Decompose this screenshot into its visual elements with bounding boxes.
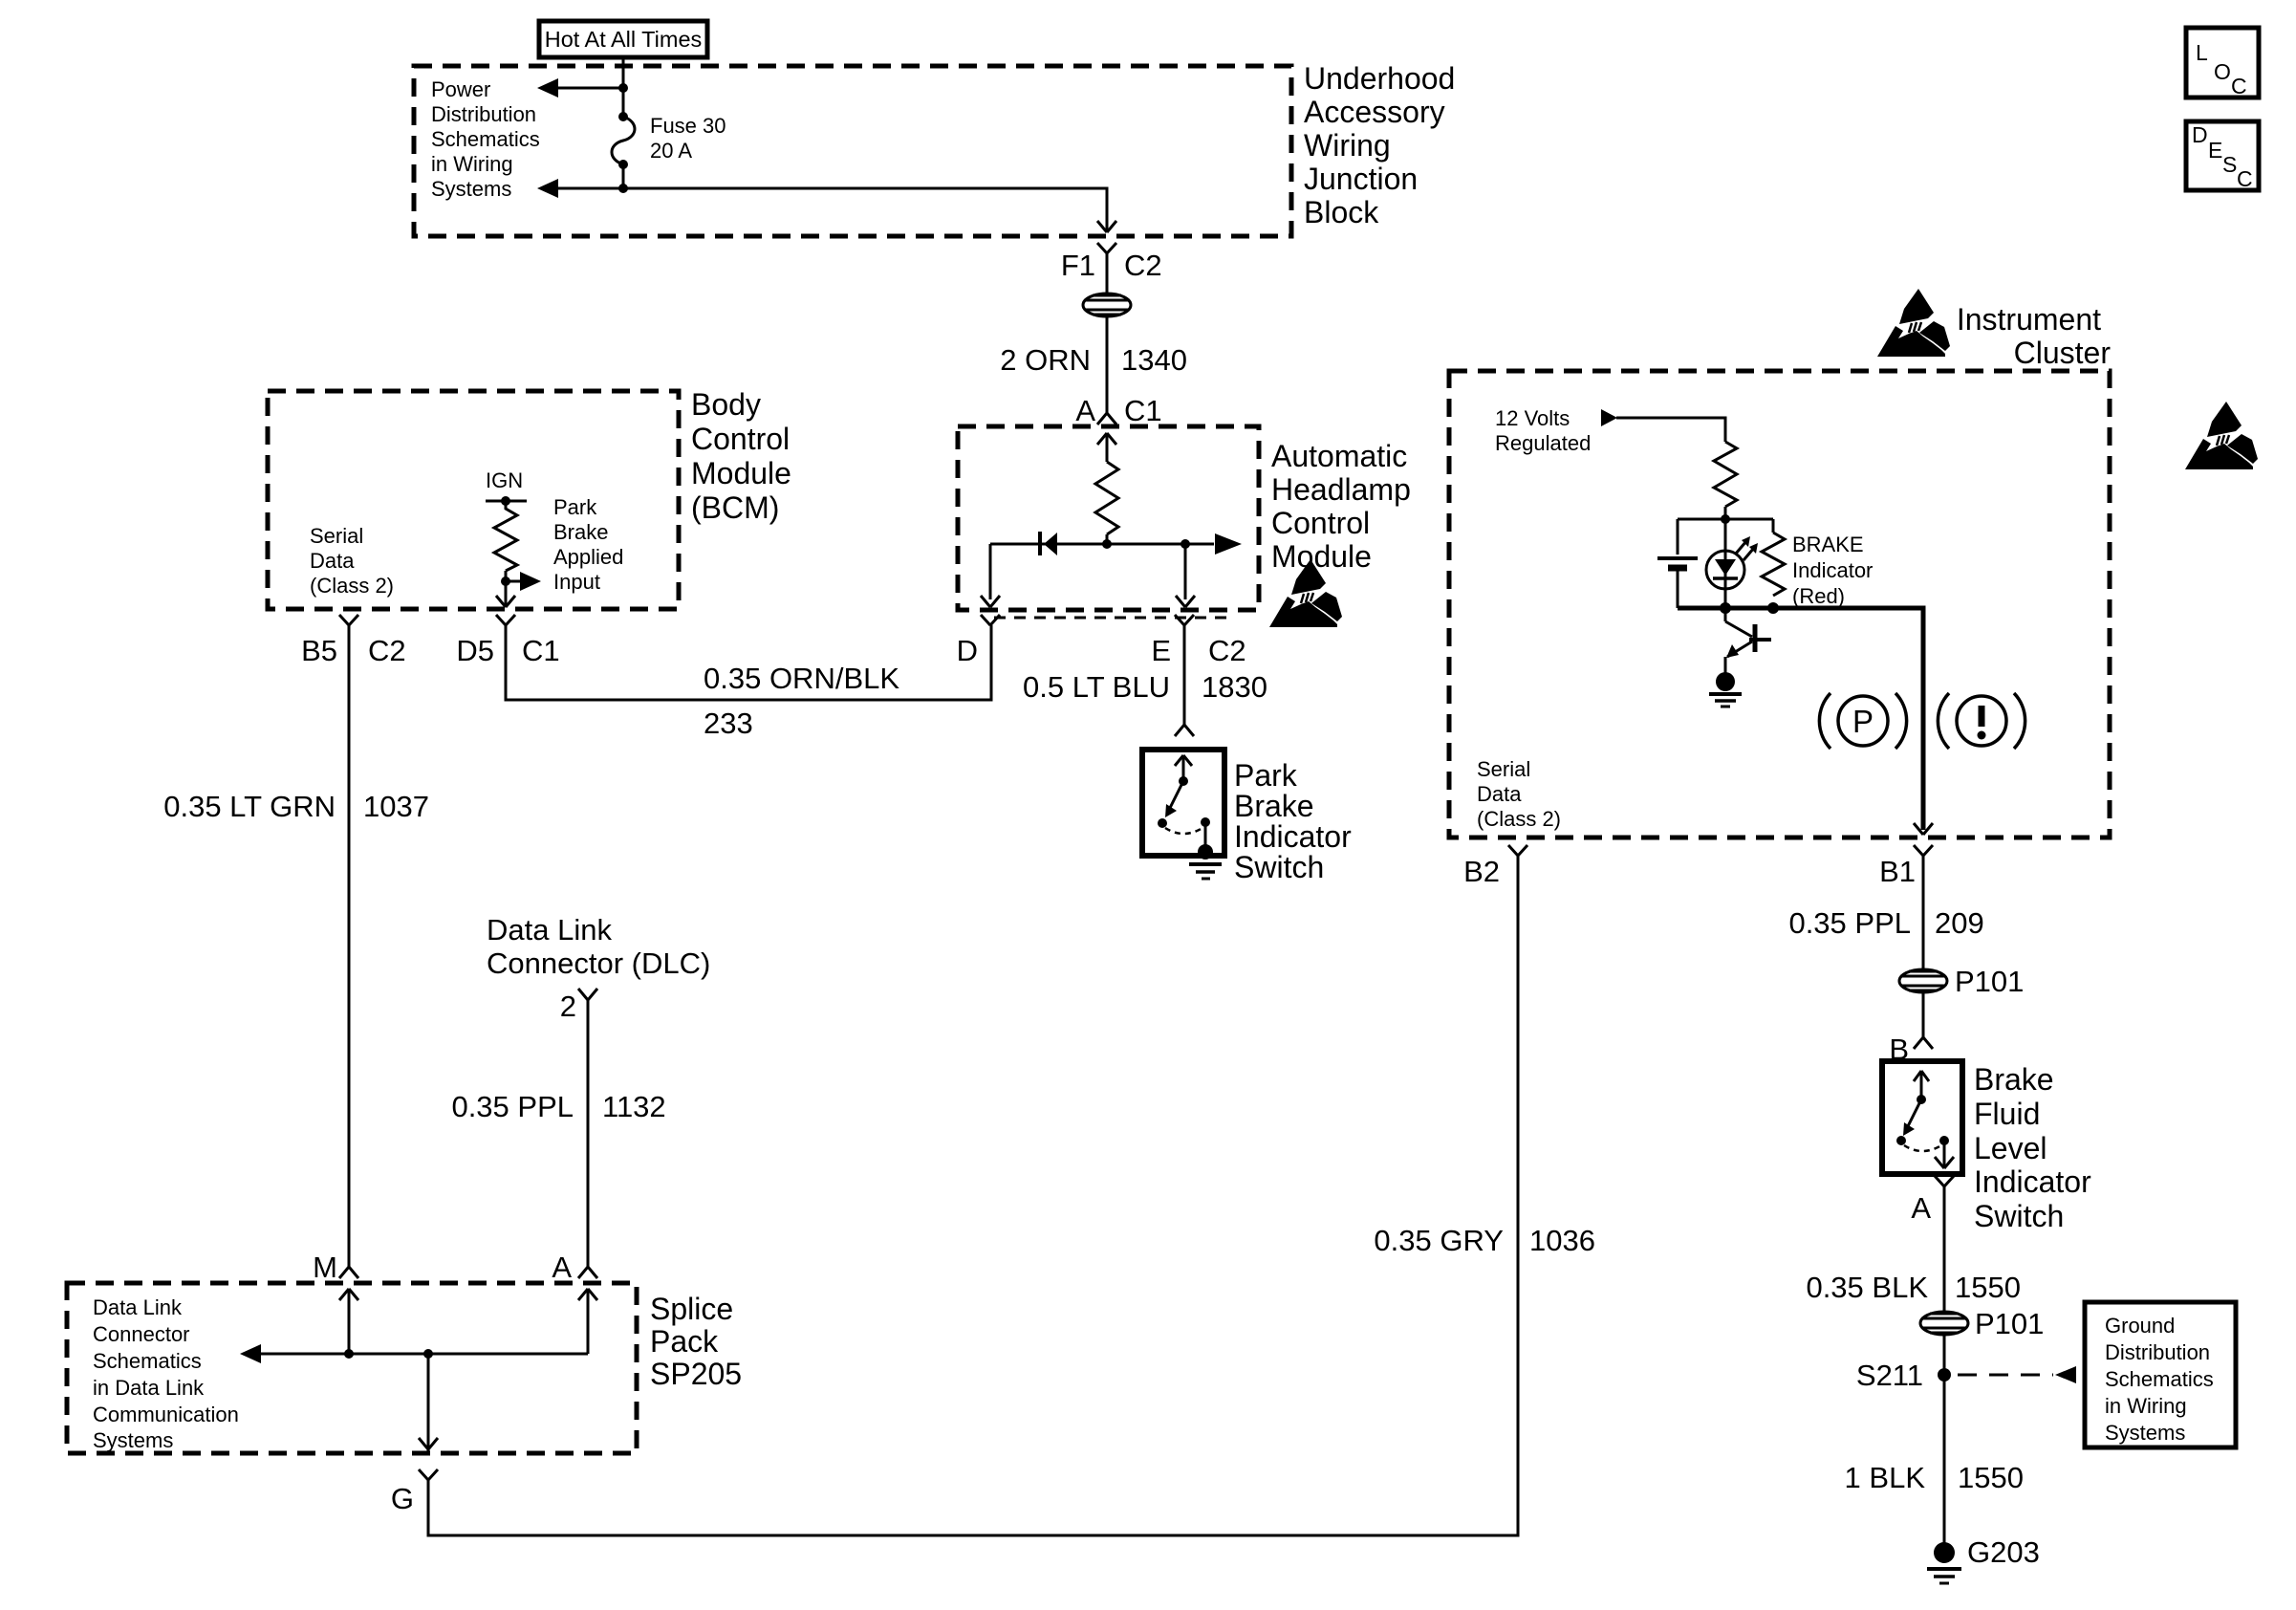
label: 2 ORN 1340 xyxy=(1000,343,1187,377)
svg-text:Instrument: Instrument xyxy=(1957,302,2101,337)
svg-text:BRAKE: BRAKE xyxy=(1792,533,1864,556)
brake fluid switch internals xyxy=(1896,1071,1954,1168)
wire E to park brake switch (0.5 LT BLU 1830) xyxy=(1183,625,1186,725)
svg-text:C1: C1 xyxy=(522,634,560,667)
wire P101 to G203 xyxy=(1943,1335,1946,1545)
svg-text:Systems: Systems xyxy=(93,1428,173,1452)
svg-text:Wiring: Wiring xyxy=(1304,128,1391,163)
svg-text:1 BLK: 1 BLK xyxy=(1845,1461,1926,1494)
wire G to B2 xyxy=(428,856,1518,1535)
svg-text:F1: F1 xyxy=(1061,249,1095,282)
svg-text:B5: B5 xyxy=(301,634,337,667)
node LED top xyxy=(1721,514,1730,524)
resistor in BCM xyxy=(494,501,517,571)
Ground Distribution Schematics in Wiring Systems box xyxy=(2085,1302,2236,1447)
connector B1 xyxy=(1879,845,1933,969)
label: 0.35 ORN/BLK 233 xyxy=(704,662,899,740)
svg-text:Park: Park xyxy=(553,495,597,519)
park brake telltale (P) xyxy=(1819,693,1906,749)
svg-text:0.35 LT GRN: 0.35 LT GRN xyxy=(163,790,336,823)
svg-text:Applied: Applied xyxy=(553,545,623,569)
svg-text:(Class 2): (Class 2) xyxy=(310,574,394,598)
wire DLC to A (0.35 PPL 1132) xyxy=(587,1000,590,1267)
svg-text:209: 209 xyxy=(1935,906,1984,940)
svg-text:D: D xyxy=(957,634,978,667)
Body Control Module dashed box xyxy=(268,391,679,609)
label: 0.35 GRY 1036 xyxy=(1374,1224,1595,1257)
park brake switch internals xyxy=(1158,755,1213,859)
wire resistor to bus xyxy=(1106,534,1109,544)
splice bus wire with arrow xyxy=(240,1344,588,1363)
svg-text:Connector (DLC): Connector (DLC) xyxy=(487,946,710,980)
transistor Q1 xyxy=(1725,608,1771,673)
svg-text:Indicator: Indicator xyxy=(1234,819,1352,854)
svg-text:A: A xyxy=(1075,394,1095,427)
svg-text:C: C xyxy=(2231,74,2247,98)
wire 2 ORN 1340 xyxy=(1106,316,1109,413)
svg-text:Headlamp: Headlamp xyxy=(1271,472,1411,507)
wire A to P101 (0.35 BLK 1550) xyxy=(1943,1186,1946,1312)
svg-text:Indicator: Indicator xyxy=(1792,558,1873,582)
connector DLC pin 2 xyxy=(560,989,597,1023)
node resistor bottom xyxy=(1767,602,1779,614)
svg-text:SP205: SP205 xyxy=(650,1357,742,1391)
arrow into AHCM at A xyxy=(1097,433,1116,462)
ground G203 xyxy=(1927,1535,2040,1583)
wire to F1 pin xyxy=(623,188,1116,232)
DESC reference box xyxy=(2186,121,2259,191)
wire arrow to power distribution (top) xyxy=(537,78,623,98)
svg-text:Communication: Communication xyxy=(93,1403,239,1426)
label: 0.35 PPL 209 xyxy=(1788,906,1983,940)
svg-text:Systems: Systems xyxy=(431,177,511,201)
svg-text:Distribution: Distribution xyxy=(431,102,536,126)
svg-text:1132: 1132 xyxy=(602,1090,666,1123)
svg-text:Data: Data xyxy=(310,549,355,573)
connector D5 / C1 xyxy=(456,615,559,667)
svg-text:Brake: Brake xyxy=(1974,1062,2054,1097)
connector G xyxy=(391,1469,438,1515)
svg-text:Brake: Brake xyxy=(553,520,608,544)
svg-text:Splice: Splice xyxy=(650,1292,733,1326)
connector face dashed line D-E xyxy=(994,617,1235,620)
svg-text:Switch: Switch xyxy=(1974,1199,2064,1233)
node LED bottom xyxy=(1720,602,1731,614)
LED parallel network loop xyxy=(1678,519,1773,608)
svg-text:2: 2 xyxy=(560,990,576,1023)
svg-text:Control: Control xyxy=(1271,506,1370,540)
svg-text:233: 233 xyxy=(704,707,753,740)
svg-text:Junction: Junction xyxy=(1304,162,1418,196)
svg-text:Block: Block xyxy=(1304,195,1379,229)
svg-text:1830: 1830 xyxy=(1202,670,1267,704)
Brake Fluid Level Indicator Switch box xyxy=(1882,1061,1962,1174)
label: Instrument Cluster xyxy=(1957,302,2112,370)
brake warning telltale (!) xyxy=(1938,693,2025,749)
svg-text:Data Link: Data Link xyxy=(487,913,612,946)
wire resistor to D5 xyxy=(505,571,508,605)
svg-text:0.35 PPL: 0.35 PPL xyxy=(1788,906,1911,940)
arrow out of cluster at B1 xyxy=(1914,823,1933,835)
svg-text:Level: Level xyxy=(1974,1131,2047,1165)
arrow into splice from A xyxy=(578,1289,597,1354)
node junction bottom xyxy=(618,184,628,193)
svg-text:IGN: IGN xyxy=(486,468,523,492)
svg-text:in Wiring: in Wiring xyxy=(431,152,513,176)
LED BRAKE indicator xyxy=(1706,519,1758,608)
svg-text:Control: Control xyxy=(691,422,790,456)
connector B5 / C2 xyxy=(301,615,406,667)
svg-text:L: L xyxy=(2196,40,2208,65)
svg-text:(BCM): (BCM) xyxy=(691,490,779,525)
svg-text:Regulated: Regulated xyxy=(1495,431,1591,455)
label: Serial Data (Class 2) in cluster xyxy=(1477,757,1561,831)
IGN supply in BCM xyxy=(486,468,527,506)
node park brake input xyxy=(501,577,510,586)
wire resistor to LED node xyxy=(1724,507,1727,519)
svg-text:S: S xyxy=(2222,152,2237,177)
Automatic Headlamp Control Module dashed box xyxy=(958,426,1259,610)
svg-text:E: E xyxy=(1151,634,1171,667)
svg-text:Pack: Pack xyxy=(650,1324,719,1359)
node center xyxy=(1102,539,1112,549)
svg-text:1340: 1340 xyxy=(1121,343,1187,377)
svg-text:Fluid: Fluid xyxy=(1974,1097,2040,1131)
svg-text:A: A xyxy=(552,1251,572,1284)
ground at park brake switch xyxy=(1189,864,1222,879)
label: Body Control Module (BCM) xyxy=(691,387,791,525)
node junction top xyxy=(618,83,628,93)
svg-text:M: M xyxy=(313,1251,337,1284)
svg-text:0.35 GRY: 0.35 GRY xyxy=(1374,1224,1504,1257)
resistor in AHCM xyxy=(1095,462,1118,534)
resistor R1 in cluster xyxy=(1714,442,1737,507)
svg-text:0.5 LT BLU: 0.5 LT BLU xyxy=(1023,670,1170,704)
connector B at brake fluid switch xyxy=(1889,1033,1933,1066)
label: Data Link Connector Schematics in Data Link Communication Systems xyxy=(93,1295,239,1452)
label: Splice Pack SP205 xyxy=(650,1292,742,1391)
svg-text:Input: Input xyxy=(553,570,600,594)
label: 12 Volts Regulated xyxy=(1495,406,1591,455)
svg-text:Systems: Systems xyxy=(2105,1421,2185,1445)
Underhood Accessory Wiring Junction Block dashed box xyxy=(414,66,1291,236)
label: Brake Fluid Level Indicator Switch xyxy=(1974,1062,2091,1233)
svg-text:Automatic: Automatic xyxy=(1271,439,1407,473)
arrow 12V regulated xyxy=(1601,409,1617,426)
connector A below switch xyxy=(1911,1176,1954,1225)
connector D xyxy=(957,615,1000,667)
svg-text:0.35 PPL: 0.35 PPL xyxy=(451,1090,574,1123)
inline connector P101 lower xyxy=(1920,1307,2044,1340)
svg-text:Data Link: Data Link xyxy=(93,1295,183,1319)
label: BRAKE Indicator (Red) xyxy=(1792,533,1873,608)
svg-text:in Data Link: in Data Link xyxy=(93,1376,205,1400)
Park Brake Indicator Switch box xyxy=(1142,750,1224,856)
svg-text:Accessory: Accessory xyxy=(1304,95,1445,129)
svg-text:Body: Body xyxy=(691,387,761,422)
arrow to module logic xyxy=(1215,533,1242,555)
wire arrow to power distribution (bottom) xyxy=(537,179,623,198)
connector E / C2 xyxy=(1151,615,1245,667)
label: Park Brake Indicator Switch xyxy=(1234,758,1352,884)
ground in cluster xyxy=(1709,672,1742,707)
svg-text:Schematics: Schematics xyxy=(431,127,540,151)
label: Serial Data (Class 2) in BCM xyxy=(310,524,394,598)
wire D5 to D (0.35 ORN/BLK 233) xyxy=(506,625,991,700)
arrow into splice from M xyxy=(339,1289,358,1354)
svg-text:Serial: Serial xyxy=(1477,757,1530,781)
inline connector P101 upper xyxy=(1899,965,2024,998)
svg-text:1550: 1550 xyxy=(1958,1461,2024,1494)
svg-text:Cluster: Cluster xyxy=(2014,336,2112,370)
svg-text:C2: C2 xyxy=(1208,634,1246,667)
wire to B1 xyxy=(1773,608,1923,830)
svg-text:(Red): (Red) xyxy=(1792,584,1845,608)
svg-text:Indicator: Indicator xyxy=(1974,1164,2091,1199)
svg-text:1550: 1550 xyxy=(1955,1271,2021,1304)
ESD symbol near AHCM xyxy=(1269,559,1342,627)
ESD symbol near Instrument Cluster xyxy=(1877,289,1950,357)
svg-text:C1: C1 xyxy=(1124,394,1162,427)
node M junction xyxy=(344,1349,354,1359)
svg-text:(Class 2): (Class 2) xyxy=(1477,807,1561,831)
wire P101 to brake fluid switch xyxy=(1922,992,1925,1037)
label: Park Brake Applied Input xyxy=(553,495,623,594)
svg-text:A: A xyxy=(1911,1191,1931,1225)
svg-text:Hot At All Times: Hot At All Times xyxy=(545,27,703,52)
svg-text:20 A: 20 A xyxy=(650,139,692,163)
arrow park brake applied input xyxy=(506,572,541,591)
label: 0.5 LT BLU 1830 xyxy=(1023,670,1267,704)
svg-text:C2: C2 xyxy=(368,634,406,667)
svg-text:Park: Park xyxy=(1234,758,1298,793)
label: Fuse 30 20 A xyxy=(650,114,726,163)
label: Automatic Headlamp Control Module xyxy=(1271,439,1411,574)
svg-text:1036: 1036 xyxy=(1529,1224,1595,1257)
wire from Hot At All Times down xyxy=(622,57,625,117)
svg-text:Distribution: Distribution xyxy=(2105,1340,2210,1364)
internal bus wire xyxy=(990,543,1214,546)
svg-text:Module: Module xyxy=(1271,539,1372,574)
svg-text:Serial: Serial xyxy=(310,524,363,548)
node G junction xyxy=(423,1349,433,1359)
svg-text:B2: B2 xyxy=(1463,855,1500,888)
ESD symbol far right xyxy=(2185,402,2258,469)
svg-text:D: D xyxy=(2192,122,2208,147)
label: 0.35 BLK 1550 xyxy=(1806,1271,2021,1304)
node right xyxy=(1180,539,1190,549)
svg-text:Ground: Ground xyxy=(2105,1314,2175,1338)
svg-text:2 ORN: 2 ORN xyxy=(1000,343,1091,377)
svg-text:C2: C2 xyxy=(1124,249,1162,282)
label: Power Distribution Schematics in Wiring Systems xyxy=(431,77,540,201)
wire 12V to resistor xyxy=(1616,418,1725,442)
connector A at splice pack xyxy=(552,1251,597,1284)
label: Underhood Accessory Wiring Junction Block xyxy=(1304,61,1455,229)
wire left branch to D xyxy=(981,544,1000,607)
inline connector C2 barrel xyxy=(1083,294,1131,316)
svg-text:1037: 1037 xyxy=(363,790,429,823)
Splice Pack SP205 dashed box xyxy=(67,1283,637,1453)
svg-text:O: O xyxy=(2214,59,2231,84)
wire G branch down xyxy=(419,1354,438,1451)
connector B2 xyxy=(1463,845,1527,888)
svg-text:E: E xyxy=(2208,138,2222,163)
label: 0.35 PPL 1132 xyxy=(451,1090,665,1123)
Instrument Cluster dashed box xyxy=(1449,371,2110,838)
connector at park brake switch xyxy=(1175,725,1194,736)
svg-text:Switch: Switch xyxy=(1234,850,1324,884)
label: 0.35 LT GRN 1037 xyxy=(163,790,429,823)
connector F1 / C2 xyxy=(1061,243,1162,294)
diode D1 xyxy=(1040,532,1057,555)
svg-text:Connector: Connector xyxy=(93,1322,190,1346)
svg-text:0.35 BLK: 0.35 BLK xyxy=(1806,1271,1928,1304)
label: Data Link Connector (DLC) xyxy=(487,913,710,980)
connector M at splice pack xyxy=(313,1251,358,1284)
svg-text:Power: Power xyxy=(431,77,490,101)
svg-text:Schematics: Schematics xyxy=(93,1349,202,1373)
svg-text:0.35 ORN/BLK: 0.35 ORN/BLK xyxy=(704,662,899,695)
svg-text:C: C xyxy=(2237,166,2253,191)
resistor R2 BRAKE indicator xyxy=(1762,533,1785,596)
svg-text:in Wiring: in Wiring xyxy=(2105,1394,2187,1418)
connector A / C1 xyxy=(1075,394,1161,427)
svg-text:D5: D5 xyxy=(456,634,494,667)
battery symbol xyxy=(1657,558,1698,568)
svg-text:Module: Module xyxy=(691,456,791,490)
svg-text:Schematics: Schematics xyxy=(2105,1367,2214,1391)
svg-text:Brake: Brake xyxy=(1234,789,1314,823)
svg-text:Fuse 30: Fuse 30 xyxy=(650,114,726,138)
Hot At All Times callout box xyxy=(539,21,707,57)
fuse F30 xyxy=(612,112,635,169)
svg-text:P101: P101 xyxy=(1955,965,2024,998)
label: 1 BLK 1550 xyxy=(1845,1461,2024,1494)
dashed reference line S211 to ground distribution xyxy=(1958,1366,2076,1383)
svg-text:12 Volts: 12 Volts xyxy=(1495,406,1570,430)
wire right branch to E xyxy=(1176,544,1195,607)
arrow out of BCM at D5 xyxy=(496,596,515,607)
wire B5 to M (0.35 LT GRN 1037) xyxy=(348,637,351,1267)
svg-text:G: G xyxy=(391,1482,414,1515)
svg-text:S211: S211 xyxy=(1856,1359,1923,1392)
LOC reference box xyxy=(2186,28,2259,98)
svg-text:B1: B1 xyxy=(1879,855,1916,888)
wire fuse to lower junction xyxy=(622,164,625,188)
svg-text:P: P xyxy=(1852,704,1874,739)
svg-text:P101: P101 xyxy=(1975,1307,2044,1340)
svg-text:Data: Data xyxy=(1477,782,1522,806)
svg-text:Underhood: Underhood xyxy=(1304,61,1455,96)
svg-text:G203: G203 xyxy=(1967,1535,2040,1569)
splice S211 xyxy=(1856,1359,1951,1392)
